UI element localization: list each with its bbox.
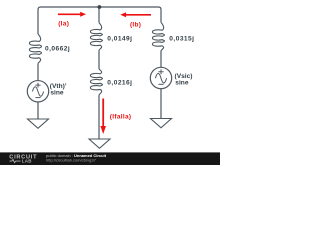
svg-text:LAB: LAB — [22, 159, 33, 164]
watermark bar — [0, 152, 220, 165]
ground left — [28, 119, 49, 128]
current arrow Ib — [120, 12, 151, 17]
wire middle column upper — [98, 7, 100, 23]
svg-text:0,0149j: 0,0149j — [107, 36, 132, 43]
svg-text:http://circuitlab.com/c6rxg37: http://circuitlab.com/c6rxg37 — [46, 158, 97, 163]
inductor L3 0,0216j — [90, 69, 102, 95]
ground right — [151, 119, 172, 128]
source V1 (Vth)' sine — [27, 81, 48, 102]
wire middle column lower — [98, 95, 100, 139]
current arrow Ia — [58, 12, 86, 17]
wire middle column between inductors — [98, 50, 100, 69]
svg-text:0,0662j: 0,0662j — [45, 46, 70, 53]
svg-text:0,0216j: 0,0216j — [107, 79, 132, 86]
svg-text:sine: sine — [50, 89, 64, 96]
svg-text:(Ia): (Ia) — [58, 21, 69, 28]
wire top rail with corners — [38, 7, 161, 34]
svg-text:(Ifalla): (Ifalla) — [110, 114, 132, 121]
current arrow Ifalla — [100, 99, 106, 135]
wire left column source to ground — [37, 102, 39, 119]
svg-text:sine: sine — [175, 80, 189, 87]
wire right column between L4 and source — [160, 51, 162, 68]
svg-text:(Ib): (Ib) — [130, 21, 141, 28]
source V2 (Vsic) sine — [150, 67, 171, 88]
wire left column between L1 and source — [37, 63, 39, 80]
inductor L4 0,0315j — [152, 22, 164, 50]
ground middle — [89, 139, 110, 148]
node junction dot — [98, 5, 102, 9]
svg-text:0,0315j: 0,0315j — [169, 36, 194, 43]
inductor L2 0,0149j — [90, 23, 102, 50]
inductor L1 0,0662j — [29, 34, 41, 63]
wire right column source to ground — [160, 89, 162, 119]
